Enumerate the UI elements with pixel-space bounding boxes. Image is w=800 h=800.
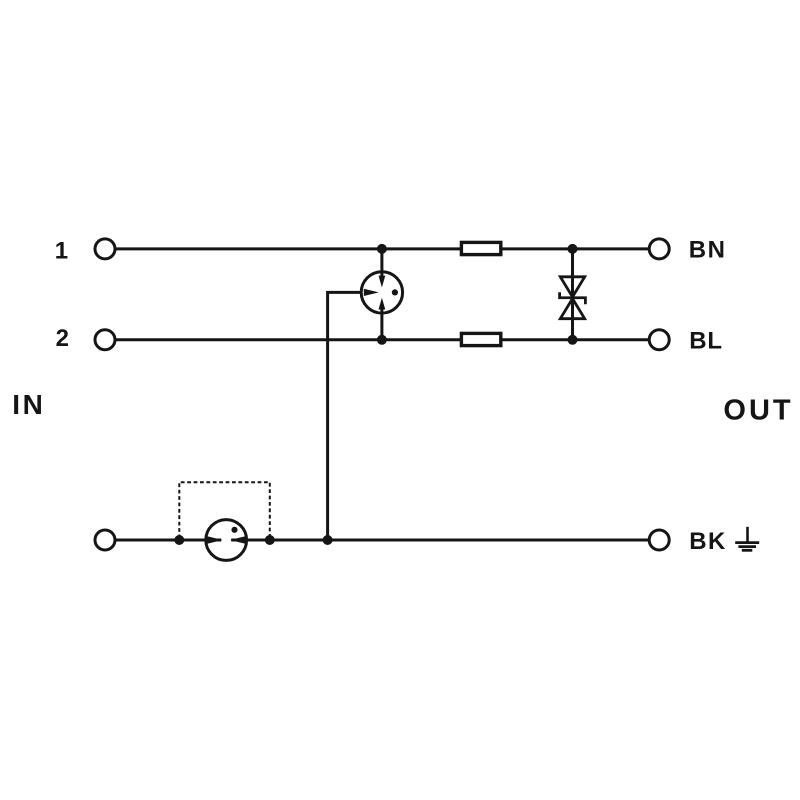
svg-text:2: 2 (56, 325, 69, 352)
svg-text:IN: IN (12, 389, 45, 420)
svg-text:1: 1 (55, 237, 68, 264)
svg-text:BL: BL (689, 328, 723, 355)
svg-text:OUT: OUT (723, 395, 793, 427)
svg-text:BN: BN (689, 237, 727, 264)
svg-text:BK: BK (689, 528, 727, 555)
